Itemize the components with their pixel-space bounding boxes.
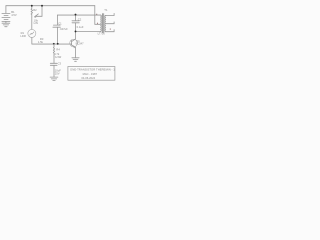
svg-text:C2: C2: [78, 17, 82, 21]
node dot junction C1: [57, 43, 59, 45]
ground (C3): [50, 77, 58, 81]
svg-text:BC547: BC547: [76, 42, 84, 46]
capacitor C2: [72, 21, 79, 23]
battery B1: [2, 13, 10, 21]
svg-text:25V: 25V: [55, 72, 60, 76]
svg-text:.047uF: .047uF: [59, 27, 68, 31]
wire collector node to transformer primary bottom: [76, 30, 101, 32]
ground (battery): [2, 23, 10, 27]
svg-text:0.1uF: 0.1uF: [77, 25, 84, 29]
ground (emitter): [72, 58, 79, 62]
transformer T1 secondary winding: [105, 16, 106, 32]
capacitor C1: [53, 25, 61, 27]
wire LDR bottom lead: [31, 38, 33, 45]
wire top rail: [6, 5, 95, 7]
title block box: [68, 67, 115, 81]
transformer T1 primary winding: [100, 15, 101, 31]
svg-text:R4: R4: [56, 48, 60, 52]
svg-text:T1: T1: [104, 8, 108, 12]
svg-text:C3: C3: [58, 62, 62, 66]
node dot C2 top: [75, 14, 77, 16]
svg-text:1.5k: 1.5k: [38, 40, 44, 44]
wire rail right corner down to primary center tap: [95, 6, 101, 25]
wire C2 top segment from junction: [75, 15, 77, 21]
LDR internal zigzag: [30, 32, 34, 35]
node dot rail wiper: [41, 5, 43, 7]
wire secondary top stub: [106, 13, 114, 15]
wire C3 bottom lead: [53, 65, 55, 77]
wire C1 top up and right to transformer primary top: [57, 15, 100, 25]
wire battery top lead: [5, 6, 7, 14]
node dot rail pot: [31, 5, 33, 7]
svg-text:1/4W: 1/4W: [55, 55, 62, 59]
capacitor C3: [50, 63, 57, 65]
svg-text:R2: R2: [33, 8, 37, 12]
pot wiper arrow: [35, 14, 39, 17]
resistor R4 vertical: [53, 44, 54, 56]
wire pot bottom to LDR top: [31, 17, 33, 29]
svg-text:LT700: LT700: [98, 31, 106, 35]
svg-text:C1: C1: [58, 22, 62, 26]
svg-text:ONE-TRANSISTOR THEREMIN - 1: ONE-TRANSISTOR THEREMIN - 1: [70, 67, 115, 71]
svg-text:04-06-2024: 04-06-2024: [81, 76, 95, 80]
svg-text:4.5V: 4.5V: [11, 13, 17, 17]
svg-text:MAC - 1987: MAC - 1987: [83, 72, 98, 76]
wire battery bottom lead: [5, 21, 7, 23]
node dot junction R4: [53, 43, 55, 45]
pin number mark primary CT: [97, 23, 98, 24]
wire C2 bottom to collector node: [75, 23, 77, 32]
pin number mark primary top: [95, 14, 98, 15]
pin number mark secondary bottom: [110, 29, 111, 30]
svg-text:LIN: LIN: [34, 21, 38, 25]
svg-text:LDR: LDR: [20, 34, 25, 38]
wire C1 bottom to base node: [56, 27, 58, 44]
wire pot wiper drop from rail: [35, 6, 42, 17]
potentiometer R2 body: [31, 6, 32, 17]
LDR R1 circle: [28, 29, 36, 37]
transistor Q1: [70, 31, 78, 57]
wire base line: [32, 43, 72, 45]
wire secondary center tap stub: [106, 22, 114, 24]
node dot collector: [75, 30, 77, 32]
transformer T1 core: [103, 14, 104, 33]
wire secondary bottom stub: [106, 30, 114, 32]
wire R4 to C3: [53, 56, 55, 63]
